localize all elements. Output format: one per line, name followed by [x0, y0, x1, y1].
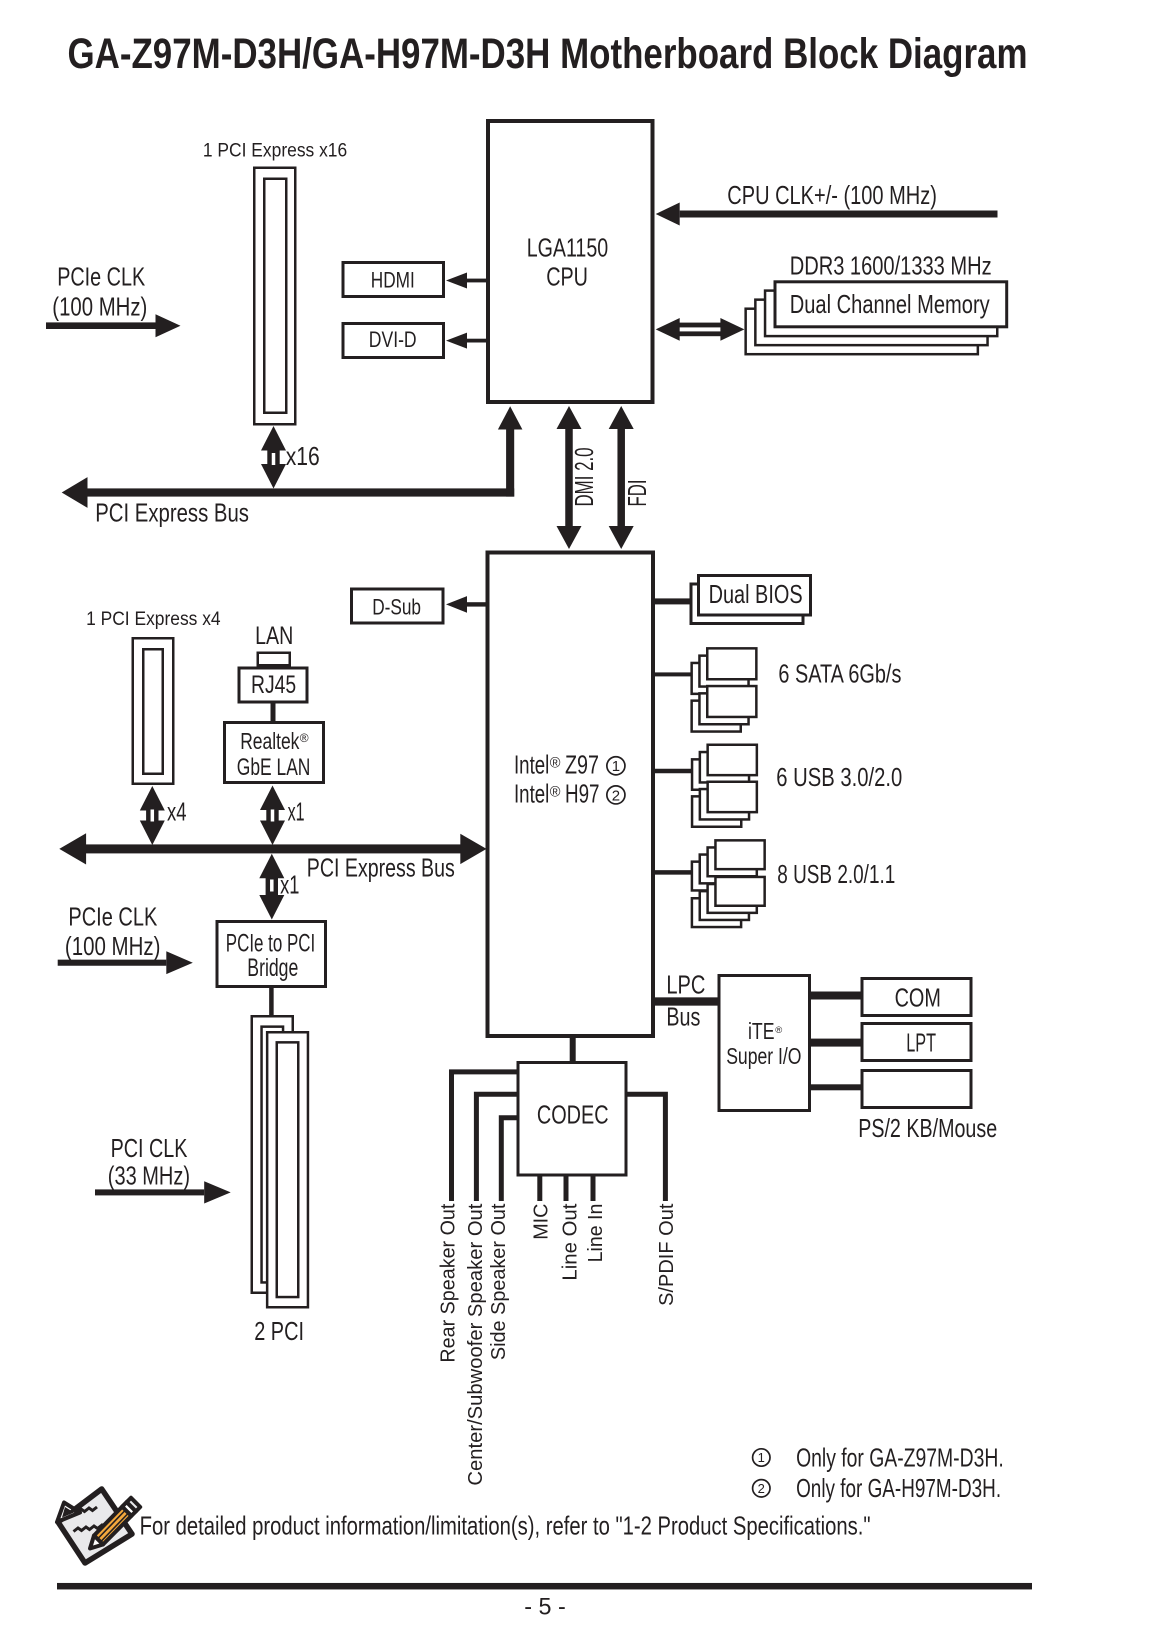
arrow CPU to DVI-D	[467, 339, 486, 343]
PCI Express Bus (upper) wire	[87, 488, 514, 496]
arrow PCIe CLK to bridge	[58, 960, 167, 966]
arrow CPU to HDMI	[467, 279, 486, 283]
svg-text:6 USB 3.0/2.0: 6 USB 3.0/2.0	[776, 762, 902, 792]
svg-text:RJ45: RJ45	[251, 671, 296, 699]
memory bus upper line	[676, 323, 724, 328]
svg-text:COM: COM	[895, 983, 941, 1013]
svg-text:PCI Express Bus: PCI Express Bus	[307, 853, 455, 883]
COM box	[862, 979, 971, 1016]
chipset box Intel Z97/H97	[488, 553, 654, 1037]
svg-text:®: ®	[775, 1025, 782, 1036]
svg-text:®: ®	[550, 755, 561, 771]
svg-text:LPT: LPT	[906, 1028, 936, 1058]
svg-text:PCIe CLK: PCIe CLK	[57, 262, 145, 292]
PCI Express x4 slot inner	[143, 649, 163, 774]
svg-text:(100 MHz): (100 MHz)	[65, 931, 160, 961]
note icon: pencil ferrule	[122, 1502, 136, 1516]
svg-text:Realtek: Realtek	[240, 728, 300, 754]
PCI Express x4 slot outer	[133, 638, 174, 784]
wire chipset to CODEC	[570, 1038, 576, 1062]
note icon: squiggle 1	[69, 1507, 98, 1514]
svg-text:LPC: LPC	[666, 970, 705, 1000]
Dual BIOS back box	[691, 584, 803, 624]
note icon: squiggle 2	[74, 1525, 106, 1532]
svg-text:Intel: Intel	[514, 779, 549, 809]
wire chipset to Dual BIOS	[655, 598, 691, 604]
RJ45 box	[239, 668, 307, 702]
note icon: pencil body	[94, 1507, 131, 1545]
svg-text:Bridge: Bridge	[247, 954, 298, 982]
circled 2	[607, 786, 625, 804]
PS/2 box	[862, 1071, 971, 1108]
svg-text:1 PCI Express x16: 1 PCI Express x16	[203, 141, 347, 162]
svg-text:Only for GA-Z97M-D3H.: Only for GA-Z97M-D3H.	[796, 1442, 1004, 1472]
svg-text:GbE LAN: GbE LAN	[237, 754, 311, 781]
svg-text:DVI-D: DVI-D	[369, 327, 417, 352]
PCI Express x16 slot outer	[254, 168, 295, 425]
double arrow x1 (LAN)	[266, 806, 278, 825]
svg-text:2: 2	[758, 1481, 765, 1496]
double arrow FDI	[617, 425, 625, 530]
svg-text:H97: H97	[565, 779, 600, 809]
svg-text:LGA1150: LGA1150	[527, 233, 609, 263]
svg-text:Only for GA-H97M-D3H.: Only for GA-H97M-D3H.	[796, 1473, 1001, 1503]
wire Line Out	[564, 1177, 569, 1202]
wire chipset to USB3	[655, 769, 692, 774]
svg-text:GA-Z97M-D3H/GA-H97M-D3H Mother: GA-Z97M-D3H/GA-H97M-D3H Motherboard Bloc…	[68, 30, 1028, 78]
wire Line In	[591, 1177, 596, 1202]
wire chipset to SATA	[655, 672, 692, 676]
svg-text:Dual BIOS: Dual BIOS	[709, 579, 803, 609]
wire iTE to PS/2	[811, 1084, 862, 1090]
svg-text:®: ®	[300, 731, 309, 745]
wire Side Speaker Out	[501, 1118, 517, 1201]
svg-text:DDR3 1600/1333 MHz: DDR3 1600/1333 MHz	[790, 250, 992, 280]
LPT box	[862, 1024, 971, 1061]
arrow PCIe CLK to x16 slot	[46, 322, 156, 329]
footnote circled 1	[753, 1449, 770, 1466]
D-Sub box	[352, 589, 444, 623]
USB 3.0 connector stack (2 groups of 3)	[692, 759, 741, 789]
svg-text:2: 2	[612, 787, 620, 804]
svg-text:PCIe CLK: PCIe CLK	[68, 902, 157, 932]
wire LPC bus	[655, 997, 719, 1005]
svg-text:LAN: LAN	[255, 622, 293, 650]
HDMI box	[343, 263, 444, 297]
arrow chipset to D-Sub	[467, 602, 486, 606]
wire Center/Subwoofer Speaker Out	[476, 1094, 517, 1201]
wire bridge to PCI slots	[269, 988, 274, 1016]
memory module stack (4 DIMMs)	[746, 309, 978, 355]
svg-text:Bus: Bus	[666, 1001, 700, 1031]
svg-text:(33 MHz): (33 MHz)	[108, 1161, 190, 1191]
svg-text:- 5 -: - 5 -	[524, 1593, 566, 1620]
double arrow DMI 2.0	[565, 425, 573, 530]
svg-text:MIC: MIC	[531, 1204, 553, 1240]
svg-text:x1: x1	[280, 870, 299, 900]
wire Rear Speaker Out	[452, 1072, 518, 1201]
svg-text:CPU CLK+/- (100 MHz): CPU CLK+/- (100 MHz)	[727, 180, 937, 210]
Dual BIOS front box	[699, 576, 811, 616]
wire iTE to LPT	[811, 1039, 862, 1047]
double arrow x16	[267, 447, 279, 469]
svg-text:PCI CLK: PCI CLK	[111, 1133, 188, 1163]
svg-text:1: 1	[758, 1450, 765, 1465]
footnote circled 2	[753, 1480, 770, 1497]
CPU box LGA1150	[488, 121, 653, 402]
svg-text:CPU: CPU	[546, 261, 588, 291]
CODEC box	[518, 1063, 626, 1176]
svg-text:PCI Express Bus: PCI Express Bus	[95, 497, 249, 527]
wire MIC	[537, 1177, 542, 1202]
double arrow x1 (bridge)	[266, 874, 278, 899]
svg-text:Dual Channel Memory: Dual Channel Memory	[790, 289, 990, 319]
note icon: pencil eraser	[127, 1498, 141, 1512]
svg-text:x4: x4	[167, 797, 187, 827]
PCI Express Bus (lower) wire	[85, 844, 462, 853]
footer rule	[57, 1583, 1032, 1590]
PCI slot 2	[267, 1032, 308, 1307]
Realtek GbE LAN box	[225, 723, 324, 783]
circled 1	[607, 757, 625, 775]
PCI slot 1	[252, 1016, 293, 1293]
svg-text:®: ®	[550, 784, 561, 800]
note icon: paper	[58, 1489, 132, 1563]
note icon: pencil tip	[90, 1536, 103, 1549]
USB 2.0 connector stack (2 groups of 4)	[692, 862, 741, 891]
svg-text:8 USB 2.0/1.1: 8 USB 2.0/1.1	[777, 859, 895, 889]
DVI-D box	[343, 324, 444, 358]
svg-text:PS/2 KB/Mouse: PS/2 KB/Mouse	[858, 1113, 997, 1143]
svg-text:Super I/O: Super I/O	[726, 1043, 801, 1069]
svg-text:HDMI: HDMI	[371, 267, 415, 292]
PCI Express x16 slot inner	[264, 179, 286, 413]
note icon: corner fold	[57, 1503, 80, 1523]
wire S/PDIF Out	[627, 1094, 666, 1201]
svg-text:Rear Speaker Out: Rear Speaker Out	[438, 1203, 460, 1362]
double arrow x4	[146, 807, 158, 825]
svg-text:Z97: Z97	[565, 750, 599, 780]
svg-text:1 PCI Express x4: 1 PCI Express x4	[86, 609, 221, 630]
arrow CPU CLK into CPU	[680, 211, 998, 218]
SATA connector stack (2 groups of 3)	[692, 663, 741, 694]
svg-text:CODEC: CODEC	[537, 1099, 609, 1129]
svg-text:S/PDIF Out: S/PDIF Out	[656, 1203, 678, 1306]
svg-text:DMI 2.0: DMI 2.0	[569, 448, 599, 507]
svg-text:6 SATA 6Gb/s: 6 SATA 6Gb/s	[778, 659, 901, 689]
svg-text:2 PCI: 2 PCI	[254, 1316, 304, 1346]
svg-text:Center/Subwoofer Speaker Out: Center/Subwoofer Speaker Out	[465, 1203, 487, 1485]
memory bus lower line	[676, 331, 724, 336]
iTE Super I/O box	[719, 976, 810, 1111]
arrow PCI CLK to PCI slots	[95, 1189, 204, 1195]
svg-text:1: 1	[612, 758, 620, 775]
wire iTE to COM	[811, 992, 862, 1000]
svg-text:(100 MHz): (100 MHz)	[52, 291, 147, 321]
LAN jack tab	[258, 653, 290, 666]
svg-text:x16: x16	[286, 441, 320, 471]
svg-text:D-Sub: D-Sub	[372, 594, 421, 619]
PCIe to PCI Bridge box	[217, 922, 326, 987]
svg-text:Side Speaker Out: Side Speaker Out	[488, 1203, 510, 1360]
svg-text:Line In: Line In	[585, 1204, 607, 1263]
wire RJ45 to Realtek	[271, 704, 276, 722]
svg-text:For detailed product informati: For detailed product information/limitat…	[140, 1510, 871, 1540]
svg-text:x1: x1	[288, 797, 305, 827]
svg-text:FDI: FDI	[622, 480, 652, 507]
wire chipset to USB2	[655, 870, 692, 875]
svg-text:iTE: iTE	[748, 1018, 775, 1044]
svg-text:Line Out: Line Out	[559, 1203, 581, 1280]
svg-text:Intel: Intel	[514, 750, 549, 780]
